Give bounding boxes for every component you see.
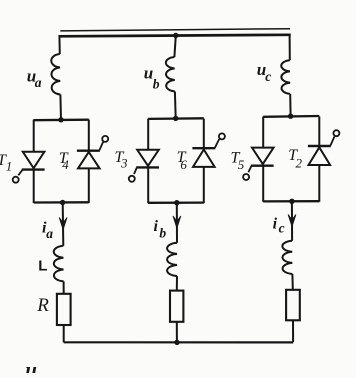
- wire: phase a drop from bus: [58, 35, 60, 54]
- wire: u_a to bridge a: [59, 95, 62, 121]
- wire: R to bottom rail phase a: [63, 325, 65, 342]
- wire: R to bottom rail phase c: [292, 320, 294, 342]
- wire: bridge a output with current arrow i_a: [62, 203, 65, 246]
- wire: u_b to bridge b: [174, 92, 177, 119]
- wire: top bus thin line: [60, 29, 290, 31]
- thyristor T6: [192, 119, 225, 204]
- wire: bridge c bottom rail: [263, 200, 319, 202]
- inductor L (phase a): [54, 246, 64, 282]
- wire: coil to R phase c: [291, 274, 293, 290]
- svg-text:5: 5: [238, 157, 245, 172]
- svg-text:i: i: [154, 218, 159, 235]
- svg-text:a: a: [35, 75, 42, 90]
- svg-text:u: u: [25, 358, 37, 374]
- node: bridge b top junction: [173, 116, 178, 121]
- wire: bridge c top rail: [263, 115, 319, 118]
- thyristor T4: [77, 120, 108, 204]
- svg-text:L: L: [38, 257, 47, 274]
- thyristor T3: [129, 119, 159, 204]
- svg-text:6: 6: [180, 157, 187, 172]
- svg-text:2: 2: [296, 155, 303, 170]
- resistor R (phase a): [57, 294, 71, 325]
- svg-text:3: 3: [120, 156, 128, 171]
- thyristor T5: [243, 117, 274, 202]
- node: bridge c bottom junction: [289, 199, 294, 204]
- svg-text:a: a: [46, 226, 53, 241]
- inductor u_c: [281, 60, 290, 94]
- wire: bottom return rail: [64, 341, 293, 343]
- wire: bridge b top rail: [148, 117, 204, 120]
- wire: bridge a top rail: [34, 119, 89, 122]
- wire: phase b drop from bus: [174, 36, 175, 58]
- wire: coil to R phase b: [176, 276, 178, 291]
- node: bridge a top junction: [58, 117, 63, 122]
- wire: L to R phase a: [63, 281, 65, 293]
- node: bus junction phase b: [173, 33, 178, 38]
- svg-text:c: c: [279, 221, 285, 236]
- thyristor T2: [308, 117, 340, 202]
- svg-text:4: 4: [62, 157, 69, 172]
- wire: bridge c output with current arrow i_c: [291, 201, 293, 240]
- thyristor T1: [13, 120, 45, 204]
- wire: bridge b output with current arrow i_b: [176, 203, 178, 243]
- svg-text:b: b: [153, 77, 160, 92]
- node: bridge c top junction: [288, 114, 293, 119]
- wire: phase c drop from bus: [289, 34, 291, 60]
- svg-text:c: c: [265, 69, 271, 84]
- svg-text:b: b: [159, 225, 166, 240]
- inductor u_a: [51, 54, 60, 95]
- resistor R (phase b): [170, 291, 183, 322]
- node: bridge b bottom junction: [174, 200, 179, 205]
- wire: bridge a bottom rail: [34, 201, 89, 203]
- inductor u_b: [166, 57, 175, 92]
- resistor R (phase c): [286, 290, 300, 321]
- inductor L (phase c): [282, 241, 292, 274]
- wire: R to bottom rail phase b: [176, 322, 178, 343]
- svg-text:R: R: [36, 295, 49, 316]
- wire: bridge b bottom rail: [148, 201, 204, 203]
- svg-text:i: i: [273, 216, 278, 233]
- wire: top bus thick line: [59, 35, 291, 37]
- node: bridge a bottom junction: [60, 200, 65, 205]
- wire: u_c to bridge c: [289, 94, 291, 116]
- inductor L (phase b): [167, 243, 177, 276]
- svg-text:1: 1: [6, 158, 13, 173]
- node: bottom rail junction phase b: [174, 340, 179, 345]
